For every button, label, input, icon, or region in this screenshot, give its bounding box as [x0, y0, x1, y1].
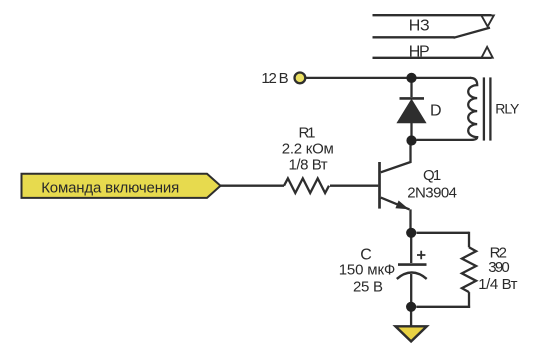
ground symbol triangle [395, 326, 426, 341]
svg-text:НР: НР [409, 44, 430, 61]
svg-text:R1: R1 [299, 125, 316, 142]
svg-text:12 В: 12 В [261, 70, 288, 87]
junction node emitter top [406, 228, 416, 238]
capacitor C plus sign [417, 251, 425, 259]
capacitor C bottom wire [410, 274, 412, 303]
wire bottom rail R2 to ground node [416, 306, 470, 308]
svg-text:D: D [430, 102, 442, 119]
diode D cathode bar [400, 97, 425, 100]
svg-text:2N3904: 2N3904 [407, 184, 457, 201]
junction node ground [406, 302, 416, 312]
relay core bar 2 [489, 77, 491, 140]
diode D wire bottom [410, 123, 412, 141]
resistor R2 bottom lead [468, 292, 470, 308]
diode D triangle [397, 100, 425, 123]
svg-text:НЗ: НЗ [409, 18, 430, 35]
transistor Q1 collector wire [381, 141, 411, 173]
ground wire [410, 310, 412, 326]
transistor Q1 emitter wire down [409, 209, 411, 230]
capacitor C top wire [410, 233, 412, 263]
svg-text:1/8 Вт: 1/8 Вт [289, 157, 328, 174]
svg-text:25 В: 25 В [353, 278, 383, 295]
svg-text:2.2 кОм: 2.2 кОм [282, 141, 334, 158]
relay contact NC top line [373, 14, 492, 16]
resistor R1 zigzag [284, 178, 329, 193]
capacitor C curved plate [397, 273, 427, 279]
transistor Q1 base bar [378, 162, 381, 209]
relay NO contact triangle [482, 47, 493, 58]
svg-text:1/4 Вт: 1/4 Вт [478, 276, 517, 293]
relay NC armature slanted line [454, 28, 491, 38]
relay NC stationary contact triangle [481, 15, 493, 26]
svg-text:RLY: RLY [495, 101, 520, 117]
wire 12V rail [306, 77, 472, 79]
diode D wire top [410, 78, 412, 97]
relay coil RLY [417, 78, 478, 140]
junction node collector [406, 135, 416, 145]
svg-text:150 мкФ: 150 мкФ [339, 262, 396, 279]
transistor Q1 emitter [381, 198, 410, 210]
capacitor C top plate [398, 263, 427, 266]
transistor Q1 emitter arrow [395, 201, 409, 210]
svg-text:Команда включения: Команда включения [41, 179, 179, 196]
relay core bar 1 [483, 77, 485, 140]
svg-text:Q1: Q1 [423, 167, 441, 184]
terminal 12V circle [295, 73, 306, 84]
transistor Q1 base wire [330, 185, 378, 187]
svg-text:390: 390 [488, 259, 509, 276]
wire collector rail to coil [417, 232, 470, 234]
resistor R2 top lead [468, 232, 470, 248]
command banner flag [22, 174, 221, 198]
resistor R2 zigzag [462, 247, 476, 292]
wire banner tip to R1 [221, 185, 285, 187]
relay contact NO bottom line [373, 57, 492, 59]
relay NC armature base line [373, 36, 455, 38]
junction node at 12V rail [406, 73, 416, 83]
